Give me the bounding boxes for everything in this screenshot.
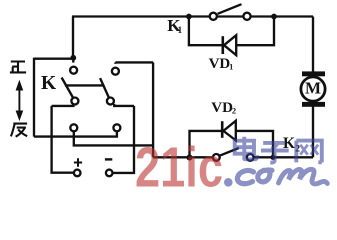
- wire left pole to L1: [52, 104, 74, 106]
- svg-text:2: 2: [232, 106, 236, 116]
- diode VD1 cathode bar: [222, 36, 225, 54]
- motor M body: [301, 77, 325, 101]
- switch K2 right contact: [247, 154, 254, 161]
- wire upper-right contact stub: [114, 62, 116, 63]
- switch K upper-right throw contact: [112, 68, 119, 75]
- svg-text:K: K: [41, 73, 57, 94]
- junction dot K1 right: [271, 14, 277, 20]
- wire left drop from top bus: [72, 17, 74, 60]
- diode VD1 triangle: [224, 35, 236, 55]
- wire upper-right contact to L3: [115, 61, 153, 63]
- junction dot VD2 right: [270, 155, 275, 160]
- wire VD2 branch left riser: [190, 131, 222, 158]
- switch K2 left contact: [213, 154, 220, 161]
- switch K1 left contact: [210, 13, 217, 20]
- switch K1 arm: [218, 4, 242, 14]
- wire bottom bus right segment: [254, 156, 313, 158]
- switch K right-middle throw contact: [113, 124, 120, 131]
- label 反 reverse: [11, 124, 27, 137]
- wire stub below node A: [72, 59, 74, 63]
- wire outer left vertical: [33, 58, 35, 137]
- wire VD1 branch left riser: [189, 17, 222, 46]
- svg-text:21ic: 21ic: [135, 136, 223, 189]
- wire right drop to motor: [312, 17, 314, 73]
- junction dot VD2 left: [187, 155, 193, 161]
- wire motor bottom drop: [312, 107, 314, 158]
- wire bottom bus middle segment: [153, 156, 213, 158]
- battery plus terminal: [74, 170, 81, 177]
- battery plus sign: [74, 158, 82, 166]
- svg-text:1: 1: [229, 63, 233, 72]
- switch K1 right contact: [243, 13, 250, 20]
- battery minus sign: [105, 158, 112, 160]
- wire VD2 branch right riser: [236, 131, 273, 157]
- junction dot K1 left: [186, 14, 192, 20]
- switch K right pole pivot: [107, 98, 114, 105]
- svg-text:VD: VD: [211, 100, 233, 116]
- battery minus terminal: [106, 170, 113, 177]
- switch K linkage bar: [65, 84, 105, 86]
- motor M top brush: [302, 71, 325, 76]
- wire VD1 branch right riser: [236, 17, 274, 46]
- diode VD2 cathode bar: [221, 121, 224, 138]
- svg-text:M: M: [305, 78, 321, 97]
- switch K left arm: [62, 78, 74, 99]
- wire right pole to L2: [114, 104, 134, 106]
- switch K right arm: [100, 78, 109, 98]
- junction dot node A: [70, 55, 76, 61]
- wire top bus: [72, 15, 313, 17]
- wire L1 vertical to battery plus: [52, 106, 74, 173]
- switch K left-middle throw contact: [70, 124, 77, 131]
- wire H2 cross link to left-middle contact: [74, 131, 153, 145]
- svg-text:1: 1: [178, 25, 183, 35]
- motor M bottom brush: [302, 102, 325, 107]
- diode VD2 triangle: [223, 121, 235, 141]
- switch K2 arm: [220, 148, 239, 156]
- label 正 forward: [10, 62, 26, 73]
- arrow toggle direction: [18, 88, 20, 113]
- switch K upper-left throw contact: [70, 67, 77, 74]
- switch K left pole pivot: [71, 98, 78, 105]
- watermark 21ic.com dianziwang: [135, 136, 327, 200]
- wire H1 cross link to right-middle contact: [34, 131, 117, 136]
- svg-text:VD: VD: [209, 56, 231, 72]
- wire L2 vertical to battery minus: [113, 106, 134, 173]
- wire L3 vertical: [152, 62, 154, 157]
- wire node A to outer left: [34, 58, 72, 60]
